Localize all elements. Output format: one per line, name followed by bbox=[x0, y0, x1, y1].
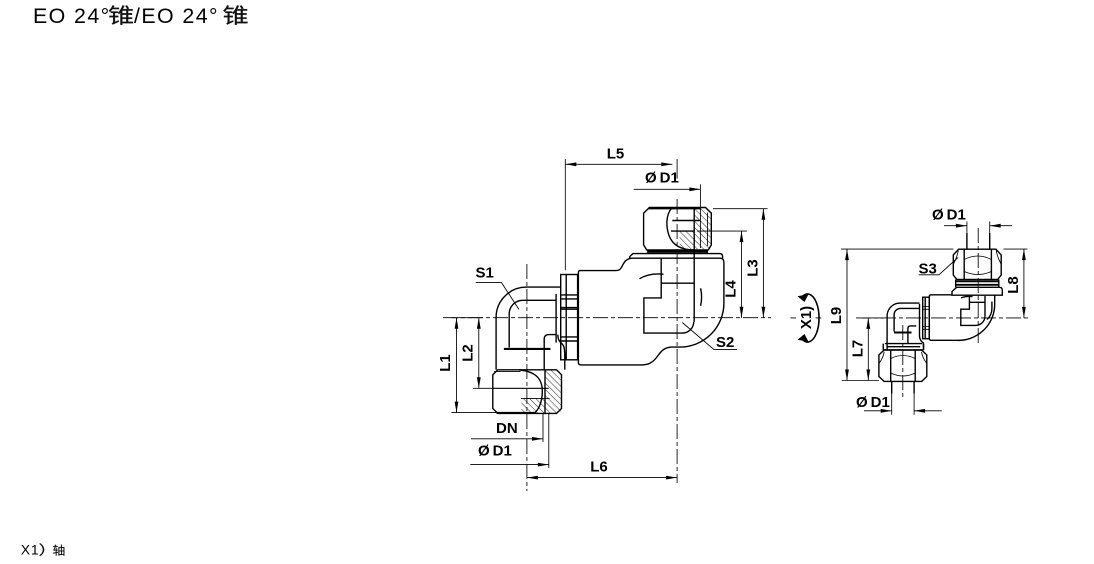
top flange bbox=[630, 254, 723, 259]
right swivel outline bbox=[923, 297, 930, 339]
svg-text:L4: L4 bbox=[723, 280, 740, 298]
elbow tube face line bbox=[555, 294, 557, 343]
right horizontal centerline bbox=[856, 317, 1029, 319]
dimension L2 bbox=[459, 318, 548, 389]
top port nut outline bbox=[644, 208, 712, 250]
svg-text:S3: S3 bbox=[919, 261, 937, 278]
elbow outer profile (main left elbow) bbox=[496, 287, 561, 370]
main top port vertical centerline bbox=[676, 199, 678, 483]
top nut thread line b bbox=[671, 230, 694, 232]
right top nut outline bbox=[953, 249, 1001, 279]
dimension L5 bbox=[565, 145, 677, 270]
right bottom nut chamfer arcs bbox=[879, 352, 926, 376]
top nut tube ball contour bbox=[667, 208, 694, 250]
X1 centerline dashes bbox=[791, 317, 822, 319]
bottom nut inner line a bbox=[494, 387, 549, 389]
right bottom washers bbox=[883, 344, 923, 350]
svg-text:X1): X1) bbox=[798, 306, 815, 329]
body cosmetic flat arc top bbox=[640, 274, 664, 279]
swivel nut outline bbox=[561, 275, 578, 360]
bottom nut thread hatch column bbox=[545, 370, 561, 413]
right top tube stub bbox=[967, 233, 990, 249]
bottom nut heavy bottom edge bbox=[497, 412, 537, 414]
right top nut chamfer arcs bbox=[954, 251, 1001, 275]
bottom nut hatch lower patch bbox=[522, 399, 546, 413]
body outline (main) bbox=[578, 258, 724, 365]
right body cosmetic flat arc bbox=[961, 296, 973, 298]
svg-text:L9: L9 bbox=[828, 307, 845, 325]
dimension L4 bbox=[697, 231, 747, 318]
right elbow inner contour bbox=[894, 308, 919, 331]
elbow inner bore contour bbox=[509, 300, 556, 347]
dimension L7 bbox=[849, 318, 884, 381]
svg-text:X1: X1 bbox=[21, 542, 40, 558]
dimension L3 bbox=[713, 209, 768, 318]
svg-text:DN: DN bbox=[496, 420, 518, 437]
svg-text:L5: L5 bbox=[607, 145, 625, 162]
svg-text:S1: S1 bbox=[476, 265, 494, 282]
bottom nut inner line b bbox=[521, 398, 550, 400]
svg-text:EO 24°: EO 24° bbox=[33, 4, 111, 28]
body internal step contour bbox=[644, 283, 694, 333]
svg-text:Ø D1: Ø D1 bbox=[856, 394, 890, 411]
bottom nut hatch boundary line bbox=[544, 370, 546, 413]
X1 rotation symbol bbox=[798, 294, 820, 342]
title text EO 24 cone / EO 24 cone bbox=[33, 4, 247, 28]
right top nut hex face lines bbox=[964, 249, 991, 279]
top nut hatch lower patch bbox=[680, 231, 695, 249]
main bottom port vertical centerline bbox=[526, 264, 528, 491]
right elbow bore step bbox=[908, 326, 916, 344]
top nut right chamfer line bbox=[707, 213, 709, 247]
right body inner elbow second contour bbox=[987, 302, 992, 320]
right body outline bbox=[929, 295, 994, 341]
svg-text:L8: L8 bbox=[1005, 276, 1022, 294]
right bottom nut hex lines bbox=[891, 350, 916, 381]
right bottom nut outline bbox=[879, 350, 927, 381]
top nut thread line a bbox=[672, 220, 700, 222]
washer under top nut bbox=[648, 250, 707, 253]
bottom nut top chamfer facet line bbox=[494, 371, 521, 373]
elbow cone seat heavy bar bbox=[504, 348, 551, 350]
svg-text:Ø D1: Ø D1 bbox=[645, 170, 679, 187]
svg-text:Ø D1: Ø D1 bbox=[932, 207, 966, 224]
elbow bore step bbox=[544, 335, 556, 370]
right body internal bore contour bbox=[969, 296, 985, 316]
body internal shoulder bbox=[661, 282, 694, 284]
right top port centerline bbox=[977, 228, 979, 344]
elbow tube flare into swivel bbox=[558, 335, 565, 370]
svg-text:S2: S2 bbox=[716, 334, 734, 351]
dimension diameter D1 right bottom bbox=[856, 394, 942, 415]
swivel ring dividers bbox=[561, 295, 578, 341]
dimension L1 bbox=[437, 318, 496, 413]
right washer stack bbox=[956, 280, 999, 288]
right body internal step contour bbox=[961, 302, 985, 325]
body cosmetic flat arc right bbox=[701, 288, 702, 306]
footnote X1) axis bbox=[21, 542, 65, 558]
dimension diameter D1 bottom bbox=[470, 413, 549, 468]
right elbow seat bar bbox=[894, 331, 911, 333]
right bottom tube stubs bbox=[892, 381, 914, 393]
main horizontal centerline bbox=[443, 317, 771, 319]
bottom nut cone ball curve bbox=[520, 370, 543, 413]
dimension diameter D1 top bbox=[634, 170, 701, 249]
body internal bore verticals under top port bbox=[661, 252, 694, 322]
right bottom port centerline bbox=[902, 325, 904, 398]
leader S3 bbox=[919, 258, 959, 278]
bottom port nut outline bbox=[493, 370, 562, 414]
top nut heavy top edge bbox=[649, 207, 700, 209]
dimension L8 bbox=[1004, 249, 1028, 318]
dimension L9 bbox=[828, 249, 954, 380]
top nut hatch boundary line bbox=[693, 208, 695, 250]
svg-text:L7: L7 bbox=[849, 340, 866, 358]
dimension L6 bbox=[527, 459, 677, 480]
swivel nut inner vertical bbox=[565, 275, 567, 360]
right elbow outer profile bbox=[887, 303, 919, 350]
svg-text:L1: L1 bbox=[437, 354, 454, 372]
svg-text:L2: L2 bbox=[459, 344, 476, 362]
svg-text:L6: L6 bbox=[590, 459, 608, 476]
right flange bbox=[952, 287, 1002, 295]
dimension DN bbox=[471, 413, 543, 442]
svg-text:L3: L3 bbox=[745, 259, 762, 277]
right tube face and flare bbox=[920, 304, 924, 350]
leader S1 bbox=[476, 265, 520, 310]
svg-text:/EO 24°: /EO 24° bbox=[134, 4, 219, 28]
top nut hatch column bbox=[694, 208, 710, 249]
svg-text:Ø D1: Ø D1 bbox=[478, 443, 512, 460]
dimension diameter D1 right top bbox=[932, 207, 1012, 233]
right swivel dividers bbox=[923, 307, 930, 330]
leader S2 bbox=[682, 323, 737, 352]
